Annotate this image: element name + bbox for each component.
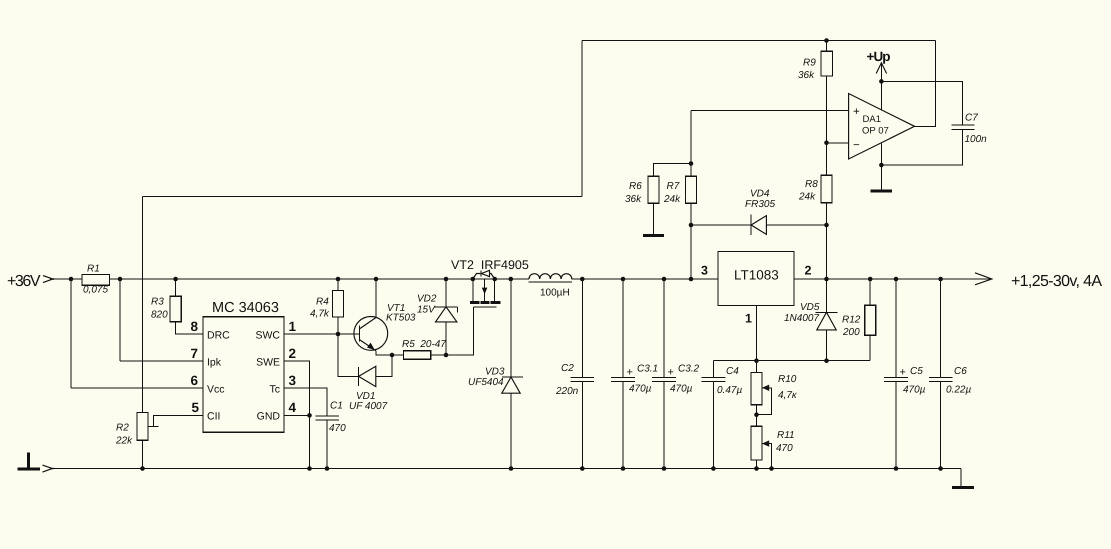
wire: C3.2 bottom lead bbox=[663, 381, 665, 468]
ground symbol (under op-amp) bbox=[871, 189, 893, 192]
svg-text:R9: R9 bbox=[803, 58, 816, 69]
svg-text:100µH: 100µH bbox=[540, 288, 570, 299]
node: op-amp -input node bbox=[824, 141, 829, 146]
svg-text:5: 5 bbox=[192, 400, 200, 415]
wire: C6 bottom lead bbox=[940, 381, 942, 468]
svg-text:470: 470 bbox=[329, 423, 346, 434]
node: pin4 GND node bbox=[307, 413, 312, 418]
wire: VD5 cathode lead bbox=[826, 279, 828, 312]
wire: output rail LT1083 pin2 to output arrow bbox=[794, 278, 991, 280]
node: junction on ground rail x=309.5 bbox=[307, 466, 312, 471]
node: junction on ground rail x=896 bbox=[894, 466, 899, 471]
resistor R1 bbox=[82, 264, 110, 296]
wire: VD2 cathode lead to rail bbox=[445, 279, 447, 307]
svg-text:24k: 24k bbox=[798, 192, 816, 203]
svg-text:2: 2 bbox=[805, 264, 812, 278]
svg-text:C4: C4 bbox=[726, 366, 739, 377]
svg-text:470µ: 470µ bbox=[629, 384, 652, 395]
svg-text:C6: C6 bbox=[954, 366, 967, 377]
node: junction on ground rail x=623 bbox=[621, 466, 626, 471]
wire: C1 bottom to ground bbox=[326, 420, 328, 469]
svg-text:Vcc: Vcc bbox=[207, 384, 225, 396]
svg-text:470µ: 470µ bbox=[670, 384, 693, 395]
resistor R3 bbox=[151, 296, 181, 322]
wire: ground rail bbox=[50, 468, 961, 470]
wire: R3 top lead bbox=[175, 279, 177, 296]
svg-text:3: 3 bbox=[701, 264, 708, 278]
node: junction on +36V/output rail x=71 bbox=[69, 277, 74, 282]
resistor R11 (trimmer 470) bbox=[751, 426, 795, 460]
svg-text:C1: C1 bbox=[330, 401, 343, 412]
svg-text:200: 200 bbox=[842, 327, 860, 338]
node: junction on ground rail x=756.5 bbox=[754, 466, 759, 471]
node: +36V input terminal bbox=[7, 273, 54, 290]
wire: R2 wiper bar bbox=[148, 425, 159, 427]
node: ADJ node bbox=[754, 358, 759, 363]
svg-text:SWE: SWE bbox=[256, 357, 280, 369]
node: VT1 emitter node bbox=[390, 353, 395, 358]
wire: pin4 GND to pin2 vertical bbox=[284, 414, 310, 416]
svg-text:4,7k: 4,7k bbox=[310, 309, 330, 320]
capacitor C3.2 bbox=[652, 364, 699, 395]
svg-text:36k: 36k bbox=[625, 194, 642, 205]
svg-text:+36V: +36V bbox=[7, 273, 41, 290]
resistor R2 (trimmer) bbox=[115, 413, 148, 447]
wire: C5 top lead bbox=[895, 279, 897, 378]
svg-text:+Up: +Up bbox=[867, 49, 891, 64]
node: junction on +36V/output rail x=582.3 bbox=[580, 277, 585, 282]
node: junction on +36V/output rail x=623 bbox=[621, 277, 626, 282]
wire: R11 wiper tie to ground bbox=[762, 444, 772, 469]
svg-text:R12: R12 bbox=[842, 315, 861, 326]
node: output arrow +1,25-30v 4A bbox=[975, 273, 1102, 290]
wire: pin5 CII to R2 wiper bbox=[154, 415, 204, 426]
svg-text:R3: R3 bbox=[151, 297, 164, 308]
svg-text:GND: GND bbox=[257, 411, 281, 423]
wire: vertical feedback down to R2 top bbox=[142, 197, 144, 413]
node: op-amp V- node bbox=[879, 163, 884, 168]
svg-text:−: − bbox=[853, 140, 860, 152]
wire: -input horizontal bbox=[827, 142, 849, 144]
wire: op-amp +input horizontal bbox=[691, 110, 849, 112]
svg-text:C5: C5 bbox=[910, 366, 923, 377]
node: R9 top node bbox=[824, 38, 829, 43]
zener diode VD2 15V bbox=[417, 294, 457, 322]
node: junction on +36V/output rail x=870.2 bbox=[868, 277, 873, 282]
wire: mid feedback wire bbox=[143, 196, 583, 198]
wire: R9 top lead bbox=[826, 41, 828, 52]
svg-text:470µ: 470µ bbox=[903, 385, 926, 396]
svg-text:SWC: SWC bbox=[256, 330, 281, 342]
svg-text:OP 07: OP 07 bbox=[862, 126, 889, 137]
wire: C3.1 top lead bbox=[622, 279, 624, 378]
wire: R4 top lead bbox=[337, 279, 339, 291]
node: junction on ground rail x=771.5 bbox=[769, 466, 774, 471]
svg-text:VD3: VD3 bbox=[485, 367, 505, 378]
wire: main rail from R1 to LT1083 pin3 (interrupted by inductor) bbox=[109, 278, 529, 280]
wire: op-amp output to top rail bbox=[915, 41, 936, 127]
node: VD5 anode node bbox=[824, 358, 829, 363]
svg-text:C3.1: C3.1 bbox=[637, 364, 658, 375]
resistor R7 bbox=[663, 176, 697, 205]
svg-text:R7: R7 bbox=[667, 181, 680, 192]
node: junction on +36V/output rail x=376 bbox=[374, 277, 379, 282]
wire: pin1 SWC to VT1 base bbox=[284, 333, 359, 335]
wire: pin2 SWE to ground bbox=[284, 361, 310, 469]
diode VD5 1N4007 bbox=[784, 302, 838, 330]
svg-text:+1,25-30v, 4A: +1,25-30v, 4A bbox=[1011, 273, 1102, 290]
node: junction on +36V/output rail x=510.8 bbox=[509, 277, 514, 282]
node: junction on +36V/output rail x=691 bbox=[689, 277, 694, 282]
wire: R10 top lead bbox=[756, 361, 758, 373]
resistor R8 bbox=[798, 175, 832, 203]
svg-text:+: + bbox=[900, 367, 906, 379]
wire: R5 right lead bbox=[431, 354, 446, 356]
wire: R6 bottom to ground bar bbox=[653, 203, 655, 234]
wire: C3.1 bottom lead bbox=[622, 381, 624, 468]
wire: VD5 anode lead to ADJ wire bbox=[826, 330, 828, 361]
node: ground input arrow bbox=[43, 465, 54, 469]
svg-text:VD5: VD5 bbox=[800, 302, 820, 313]
node: +Up power terminal bbox=[867, 49, 891, 74]
wire: V- to C7 bottom bbox=[881, 129, 962, 165]
svg-text:Tc: Tc bbox=[270, 384, 281, 396]
wire: VD3 cathode to rail bbox=[510, 279, 512, 377]
svg-text:VD2: VD2 bbox=[417, 294, 437, 305]
wire: top feedback rail bbox=[582, 40, 936, 42]
node: junction on +36V/output rail x=826.5 bbox=[824, 277, 829, 282]
wire: main +36V/input rail left of R1 bbox=[50, 278, 82, 280]
node: R10/R11 node bbox=[754, 412, 759, 417]
diode VD3 UF5404 bbox=[468, 367, 523, 394]
svg-text:DA1: DA1 bbox=[863, 114, 881, 125]
svg-text:C3.2: C3.2 bbox=[678, 364, 700, 375]
wire: R8 node down to output rail bbox=[826, 203, 828, 279]
svg-text:R1: R1 bbox=[87, 264, 100, 275]
node: junction on +36V/output rail x=940.6 bbox=[938, 277, 943, 282]
transistor VT2 IRF4905 (P-MOSFET) bbox=[451, 258, 529, 307]
wire: R12 top lead bbox=[869, 279, 871, 305]
node: junction on +36V/output rail x=446 bbox=[444, 277, 449, 282]
diode VD4 FR305 bbox=[745, 189, 775, 236]
svg-text:R6: R6 bbox=[629, 181, 642, 192]
svg-text:1N4007: 1N4007 bbox=[784, 313, 819, 324]
wire: pin3 Tc to C1 bbox=[284, 388, 327, 416]
node: junction on +36V/output rail x=120 bbox=[118, 277, 123, 282]
capacitor C5 bbox=[884, 366, 925, 396]
ground symbol (left input) bbox=[18, 452, 41, 469]
capacitor C3.1 bbox=[611, 364, 658, 395]
wire: op-amp V+ vertical bbox=[880, 62, 882, 109]
capacitor C7 bbox=[952, 113, 988, 146]
wire: ADJ node horizontal bbox=[713, 360, 870, 362]
svg-text:0,075: 0,075 bbox=[83, 285, 108, 296]
svg-text:7: 7 bbox=[191, 346, 199, 361]
wire: Ipk tap vertical x=120 bbox=[119, 279, 121, 361]
wire: R4 bottom lead to base wire bbox=[337, 317, 339, 334]
wire: pin7 Ipk horizontal bbox=[120, 360, 203, 362]
svg-text:FR305: FR305 bbox=[745, 199, 775, 210]
svg-text:R8: R8 bbox=[805, 179, 818, 190]
node: VT1 base node bbox=[336, 332, 341, 337]
wire: R10 wiper tie bbox=[757, 388, 772, 415]
capacitor C4 bbox=[702, 366, 743, 396]
ground symbol (bottom right) bbox=[952, 469, 974, 488]
wire: Vcc tap vertical x=71 bbox=[70, 279, 72, 388]
resistor R10 (trimmer 4,7k) bbox=[751, 373, 798, 405]
svg-text:R5 20-47: R5 20-47 bbox=[402, 339, 446, 350]
svg-text:C2: C2 bbox=[561, 363, 574, 374]
wire: VD2 anode lead down to gate node bbox=[445, 322, 447, 355]
svg-text:1: 1 bbox=[289, 319, 297, 334]
wire: pin6 Vcc horizontal bbox=[71, 387, 203, 389]
svg-text:KT503: KT503 bbox=[386, 313, 416, 324]
op-amp DA1 OP07 bbox=[849, 94, 915, 160]
svg-text:UF5404: UF5404 bbox=[468, 377, 504, 388]
svg-text:820: 820 bbox=[151, 310, 168, 321]
wire: op-amp +input vertical x=691 (upper) bbox=[690, 111, 692, 177]
node: junction on ground rail x=327 bbox=[325, 466, 330, 471]
node: junction on +36V/output rail x=175.6 bbox=[173, 277, 178, 282]
resistor R12 bbox=[842, 305, 876, 338]
node: VD4 cathode node bbox=[824, 223, 829, 228]
svg-text:LT1083: LT1083 bbox=[734, 268, 779, 283]
node: junction on ground rail x=664 bbox=[662, 466, 667, 471]
wire: C4 top hook bbox=[712, 361, 714, 378]
svg-text:24k: 24k bbox=[663, 194, 681, 205]
node: VD4 anode node bbox=[689, 223, 694, 228]
wire: LT1083 pin1 ADJ vertical bbox=[756, 306, 758, 361]
wire: VT1 emitter to R5 node bbox=[376, 351, 392, 355]
svg-text:R4: R4 bbox=[316, 297, 329, 308]
wire: R7 bottom vertical x=691 (lower) bbox=[690, 203, 692, 279]
node: junction on ground rail x=582.3 bbox=[580, 466, 585, 471]
wire: R5 left lead bbox=[392, 354, 404, 356]
svg-text:2: 2 bbox=[289, 346, 297, 361]
svg-text:+: + bbox=[668, 367, 674, 379]
node: junction on +36V/output rail x=664 bbox=[662, 277, 667, 282]
resistor R6 bbox=[625, 176, 659, 205]
svg-text:4: 4 bbox=[289, 400, 297, 415]
wire: VD1 anode up to emitter node bbox=[376, 355, 392, 376]
resistor R4 bbox=[310, 291, 344, 320]
svg-text:MC 34063: MC 34063 bbox=[212, 300, 279, 316]
svg-text:R2: R2 bbox=[116, 423, 129, 434]
svg-text:+: + bbox=[627, 367, 633, 379]
svg-text:4,7к: 4,7к bbox=[778, 390, 798, 401]
transistor VT1 KT503 bbox=[354, 303, 416, 351]
svg-text:3: 3 bbox=[289, 373, 297, 388]
ground symbol (under R6) bbox=[643, 234, 664, 237]
capacitor C2 bbox=[555, 363, 594, 397]
IC DA2 LT1083 bbox=[718, 252, 794, 306]
wire: C3.2 top lead bbox=[663, 279, 665, 378]
wire: R2 bottom to ground bbox=[142, 440, 144, 468]
node: junction on +36V/output rail x=472.8 bbox=[471, 277, 476, 282]
wire: VD4 anode wire from pin3 node bbox=[691, 224, 751, 226]
svg-text:15V: 15V bbox=[417, 305, 436, 316]
wire: C2 bottom lead bbox=[581, 381, 583, 468]
node: R6/R7 node bbox=[689, 161, 694, 166]
node: junction on +36V/output rail x=338 bbox=[336, 277, 341, 282]
node: junction on ground rail x=511 bbox=[509, 466, 514, 471]
svg-text:R10: R10 bbox=[778, 374, 797, 385]
wire: V+ to C7 top horizontal bbox=[881, 81, 962, 124]
diode VD1 UF4007 bbox=[349, 366, 388, 412]
svg-text:0.22µ: 0.22µ bbox=[946, 385, 971, 396]
wire: vertical joining top rail and mid wire bbox=[581, 41, 583, 197]
wire: VD3 anode to ground bbox=[510, 393, 512, 468]
wire: C4 bottom lead bbox=[712, 381, 714, 468]
svg-text:R11: R11 bbox=[777, 430, 795, 441]
svg-text:220n: 220n bbox=[555, 386, 579, 397]
svg-text:470: 470 bbox=[776, 443, 793, 454]
resistor R5 bbox=[402, 339, 446, 359]
wire: R9 bottom to -input node bbox=[826, 76, 828, 143]
svg-text:Ipk: Ipk bbox=[207, 357, 222, 369]
svg-text:VD4: VD4 bbox=[750, 189, 770, 200]
node: junction on +36V/output rail x=494.7 bbox=[492, 277, 497, 282]
svg-text:C7: C7 bbox=[965, 113, 978, 124]
inductor L1 100uH bbox=[529, 274, 573, 299]
svg-text:8: 8 bbox=[191, 319, 199, 334]
wire: C6 top lead bbox=[940, 279, 942, 378]
wire: op-amp V- vertical to ground bbox=[880, 144, 882, 190]
IC U1 MC34063 bbox=[203, 300, 284, 432]
wire: VT1 collector to rail bbox=[375, 279, 377, 318]
svg-text:22k: 22k bbox=[115, 436, 133, 447]
wire: R11 bottom lead bbox=[756, 460, 758, 469]
wire: base node down to VD1 cathode bbox=[338, 334, 359, 376]
svg-text:100n: 100n bbox=[965, 134, 988, 145]
node: junction on ground rail x=713.4 bbox=[711, 466, 716, 471]
node: op-amp V+ node bbox=[879, 79, 884, 84]
svg-text:CII: CII bbox=[207, 411, 220, 423]
wire: VD4 cathode wire to R8 node bbox=[766, 224, 826, 226]
wire: C5 bottom lead bbox=[895, 381, 897, 468]
wire: R3 bottom lead to pin8 bbox=[176, 322, 203, 334]
capacitor C1 bbox=[316, 401, 347, 435]
capacitor C6 bbox=[929, 366, 972, 396]
svg-text:6: 6 bbox=[191, 373, 199, 388]
wire: R12 bottom lead bbox=[869, 335, 871, 360]
wire: gate node to VT2 gate bbox=[446, 307, 474, 355]
svg-text:36k: 36k bbox=[798, 70, 815, 81]
wire: R10 bottom lead to mid node bbox=[756, 405, 758, 426]
node: junction on ground rail x=940.6 bbox=[938, 466, 943, 471]
node: junction on ground rail x=142.5 bbox=[140, 466, 145, 471]
svg-text:UF 4007: UF 4007 bbox=[349, 401, 388, 412]
svg-text:0.47µ: 0.47µ bbox=[717, 385, 742, 396]
wire: C2 top lead bbox=[581, 279, 583, 378]
svg-text:+: + bbox=[853, 106, 860, 118]
wire: R6/R7 top tie bbox=[654, 164, 692, 177]
wire: R8 top to -input node bbox=[826, 143, 828, 175]
svg-text:DRC: DRC bbox=[207, 330, 230, 342]
svg-text:1: 1 bbox=[745, 312, 752, 326]
node: VT2 gate node bbox=[444, 353, 449, 358]
resistor R9 bbox=[798, 51, 833, 81]
node: junction on +36V/output rail x=896 bbox=[894, 277, 899, 282]
